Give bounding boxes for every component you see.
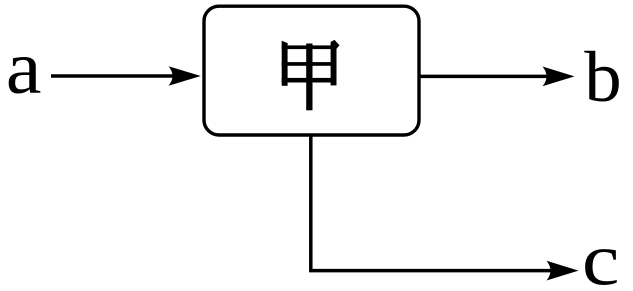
arrowhead into box [169, 66, 201, 85]
glyph jia: top bar [282, 45, 337, 49]
wire a to box [51, 74, 174, 78]
glyph jia: top-left serif [282, 41, 288, 44]
svg-text:c: c [582, 219, 620, 291]
glyph jia: middle bar [282, 62, 337, 66]
svg-text:a: a [6, 25, 42, 110]
glyph jia: left vertical [282, 43, 288, 86]
wire box to b [419, 75, 548, 79]
glyph jia: right vertical [331, 44, 337, 85]
svg-text:b: b [584, 38, 621, 117]
box 甲 (process block) [204, 6, 419, 135]
arrowhead to c [547, 261, 579, 281]
glyph jia: center vertical with tail [306, 44, 312, 111]
arrowhead to b [543, 67, 575, 87]
glyph jia: bottom bar [282, 78, 337, 83]
glyph jia: top-right corner serif [331, 40, 340, 49]
wire down from box and right to c [311, 135, 552, 271]
